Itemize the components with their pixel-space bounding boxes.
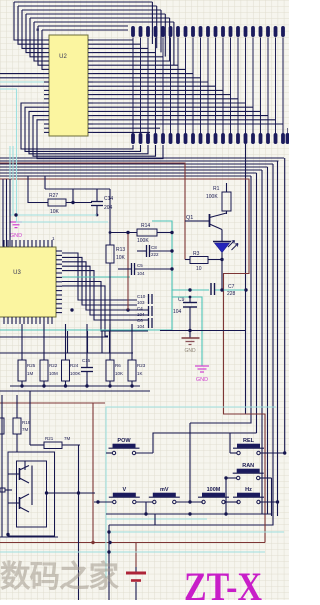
wire y330 right segment xyxy=(160,330,246,332)
svg-text:10K: 10K xyxy=(116,255,126,261)
ground GND3 magenta xyxy=(195,366,209,383)
wire cyan gnd node xyxy=(16,205,18,222)
resistor R13 xyxy=(106,245,114,263)
U3 bottom pin stubs xyxy=(4,317,52,324)
wire R3 leads xyxy=(185,259,190,261)
wire teal net1 xyxy=(0,221,246,330)
svg-text:C6: C6 xyxy=(137,318,143,323)
svg-text:1M: 1M xyxy=(27,371,34,376)
svg-text:U2: U2 xyxy=(59,54,67,60)
wire column 245 down xyxy=(245,144,247,414)
capacitor C9 xyxy=(173,297,197,338)
wire bus top horizontals xyxy=(14,2,174,30)
resistor R24 xyxy=(62,360,70,381)
battery BT1 xyxy=(126,567,146,600)
svg-text:REL: REL xyxy=(243,438,255,444)
wire RAN right drop xyxy=(271,478,273,516)
wire bus crossbar horizontals xyxy=(93,40,283,132)
wire bus middle band xyxy=(0,158,284,176)
U3 top pin stubs xyxy=(4,240,52,247)
wire left edge verticals bottom xyxy=(1,395,3,537)
wire net maroon A xyxy=(0,163,185,260)
node junction gnd1 xyxy=(14,213,17,216)
capacitor C15 xyxy=(81,358,93,386)
svg-text:R25: R25 xyxy=(27,363,36,368)
svg-text:R21: R21 xyxy=(45,436,54,441)
svg-text:10K: 10K xyxy=(50,209,60,215)
wire Q1 base xyxy=(185,220,196,222)
svg-text:104: 104 xyxy=(173,309,182,315)
IC U3 xyxy=(0,247,56,317)
svg-text:GND: GND xyxy=(10,233,22,239)
U2 right pin stubs xyxy=(88,40,93,132)
svg-text:10M: 10M xyxy=(49,371,58,376)
resistor R1 xyxy=(226,183,228,192)
svg-text:10K: 10K xyxy=(115,371,123,376)
wire R13 top xyxy=(109,189,111,245)
svg-text:ZT-X: ZT-X xyxy=(184,564,262,600)
transistor Q5 xyxy=(8,494,29,512)
ground GND1 magenta xyxy=(10,222,22,239)
capacitor C4 xyxy=(137,306,152,317)
wire U3 top columns xyxy=(3,179,10,247)
svg-text:C5: C5 xyxy=(137,263,143,268)
svg-text:100K: 100K xyxy=(70,371,81,376)
switch S100M xyxy=(198,487,238,504)
svg-text:R3: R3 xyxy=(193,251,200,257)
svg-text:103: 103 xyxy=(137,300,145,305)
wire resistor row bottom bus xyxy=(0,381,150,391)
resistor R27 xyxy=(48,199,66,206)
wire net maroon D xyxy=(92,403,94,543)
svg-text:R6: R6 xyxy=(115,363,121,368)
connector pin row middle xyxy=(131,128,289,144)
svg-text:100K: 100K xyxy=(206,194,218,200)
wire R14 leads xyxy=(110,232,137,234)
switch mV xyxy=(149,487,203,504)
U2 left pin stubs xyxy=(44,40,49,132)
svg-text:R24: R24 xyxy=(70,363,79,368)
svg-text:10: 10 xyxy=(196,266,202,272)
capacitor C10 xyxy=(137,294,152,305)
capacitor C5 xyxy=(118,268,131,270)
wire POW riser xyxy=(153,433,257,453)
svg-text:104: 104 xyxy=(137,324,145,329)
svg-text:C4: C4 xyxy=(137,306,143,311)
wire bus below U3 xyxy=(0,331,133,353)
capacitor C6 xyxy=(137,318,152,329)
wire teal box buttons xyxy=(106,407,276,578)
resistor R3 xyxy=(190,257,208,264)
wire net maroon B xyxy=(0,179,265,543)
svg-text:204: 204 xyxy=(104,205,113,211)
svg-text:104: 104 xyxy=(137,312,145,317)
wire net maroon bottom bus xyxy=(0,542,265,544)
IC U2 xyxy=(49,35,88,136)
svg-text:R13: R13 xyxy=(116,247,125,253)
svg-text:Q1: Q1 xyxy=(186,215,193,221)
svg-text:POW: POW xyxy=(117,438,131,444)
svg-text:R27: R27 xyxy=(49,193,58,199)
svg-text:GND: GND xyxy=(196,377,208,383)
svg-text:104: 104 xyxy=(137,271,145,276)
capacitor C14 xyxy=(96,189,98,201)
wire bottom bus 525 xyxy=(108,525,110,600)
svg-text:7M: 7M xyxy=(22,427,29,432)
node junctions teal column xyxy=(170,231,173,234)
wire Hz right drop xyxy=(277,161,279,516)
svg-text:C10: C10 xyxy=(137,294,146,299)
svg-text:GND: GND xyxy=(184,348,196,354)
resistor R22 xyxy=(40,360,48,381)
svg-text:C9: C9 xyxy=(178,297,185,303)
wire bus top-left to U2 left pins xyxy=(14,2,44,69)
svg-text:228: 228 xyxy=(227,291,236,297)
node junction V left xyxy=(96,500,99,503)
resistor R21 xyxy=(44,442,62,449)
component winding W1 nested loops xyxy=(8,452,55,536)
svg-text:R1: R1 xyxy=(213,186,220,192)
node junction R14 left xyxy=(126,231,129,234)
wire U2 mid-left pin feeds xyxy=(0,74,44,87)
svg-text:RAN: RAN xyxy=(242,463,254,469)
svg-text:V: V xyxy=(122,487,126,493)
capacitor C7 xyxy=(211,283,236,297)
wire bottom navy 537 xyxy=(0,536,58,538)
wire battery lead maroon xyxy=(135,543,137,568)
svg-text:R14: R14 xyxy=(141,223,150,229)
switch REL xyxy=(230,438,285,455)
wire button bottom bus xyxy=(106,512,272,515)
node junction spiral xyxy=(45,491,48,494)
wire REL left riser xyxy=(229,433,231,453)
node junctions fanout xyxy=(70,308,73,311)
wire right-edge verticals xyxy=(109,158,285,525)
svg-text:mV: mV xyxy=(160,487,169,493)
wire drop 190 xyxy=(189,423,191,502)
svg-text:100K: 100K xyxy=(137,238,149,244)
svg-text:数码之家: 数码之家 xyxy=(0,559,119,594)
U2 pin 1 marker xyxy=(37,29,39,31)
switch POW xyxy=(106,438,153,455)
wire teal to GND3 xyxy=(172,297,202,366)
wire riser 155 xyxy=(154,514,156,525)
svg-text:U3: U3 xyxy=(13,270,21,276)
transistor Q1 xyxy=(186,213,227,242)
node junction maroon bus xyxy=(91,541,94,544)
resistor R23 xyxy=(128,360,136,381)
wire drop 146 xyxy=(145,502,147,514)
ground GND2 dark xyxy=(182,338,200,354)
resistor R25 xyxy=(18,360,26,381)
wire to R27 xyxy=(28,176,48,203)
svg-text:C15: C15 xyxy=(82,358,91,363)
LED D1 xyxy=(213,241,238,260)
wire R13 bottom xyxy=(109,263,111,360)
wire cyan 552 xyxy=(0,551,265,553)
wire resistor row tops xyxy=(22,324,132,360)
svg-text:R23: R23 xyxy=(137,363,146,368)
node junction Hz right xyxy=(276,500,279,503)
resistor R19 xyxy=(13,418,21,434)
wire R27 to C14 xyxy=(66,202,92,204)
switch Hz xyxy=(233,487,278,504)
node junction RAN left xyxy=(224,476,227,479)
transistor Q4 xyxy=(8,466,32,506)
node junction R27 xyxy=(71,201,74,204)
connector pin row top xyxy=(131,26,285,37)
wire RAN left drop xyxy=(225,478,227,514)
svg-text:C14: C14 xyxy=(104,196,113,202)
node junction mV right xyxy=(188,500,191,503)
svg-text:100M: 100M xyxy=(207,487,221,493)
svg-text:R22: R22 xyxy=(49,363,58,368)
resistor R20 xyxy=(0,418,4,434)
switch V xyxy=(94,487,153,504)
svg-text:C7: C7 xyxy=(228,284,235,290)
node junction spiral bottom xyxy=(6,533,9,536)
node junction REL right xyxy=(283,451,286,454)
svg-text:7M: 7M xyxy=(64,436,71,441)
wire bus top-right corner verticals xyxy=(152,2,174,65)
node junction R3 right xyxy=(220,258,223,261)
svg-text:R19: R19 xyxy=(22,420,31,425)
svg-text:1K: 1K xyxy=(137,371,143,376)
wire bus U2 lower-left pins down xyxy=(21,103,163,159)
svg-text:222: 222 xyxy=(151,252,159,257)
wire bus U3 right fanout xyxy=(62,253,148,336)
wire bus crossbar columns xyxy=(133,38,283,134)
resistor R14 xyxy=(137,229,157,236)
svg-text:Hz: Hz xyxy=(245,487,252,493)
resistor R30 stub xyxy=(0,488,5,492)
wire net maroon C xyxy=(0,402,105,404)
U3 right pin stubs xyxy=(56,251,62,313)
resistor R6 xyxy=(106,360,114,381)
wire cyan horizontal 222 xyxy=(16,221,108,223)
wire cyan pin feed xyxy=(0,81,44,83)
node junctions cyan xyxy=(107,530,110,533)
wire cyan 532 xyxy=(109,531,284,533)
svg-text:C8: C8 xyxy=(151,245,157,250)
capacitor C8 xyxy=(137,250,146,252)
switch RAN xyxy=(226,463,272,480)
wire x78 down xyxy=(78,493,80,600)
wire cyan left column xyxy=(9,146,11,215)
wire spiral output xyxy=(47,492,96,494)
